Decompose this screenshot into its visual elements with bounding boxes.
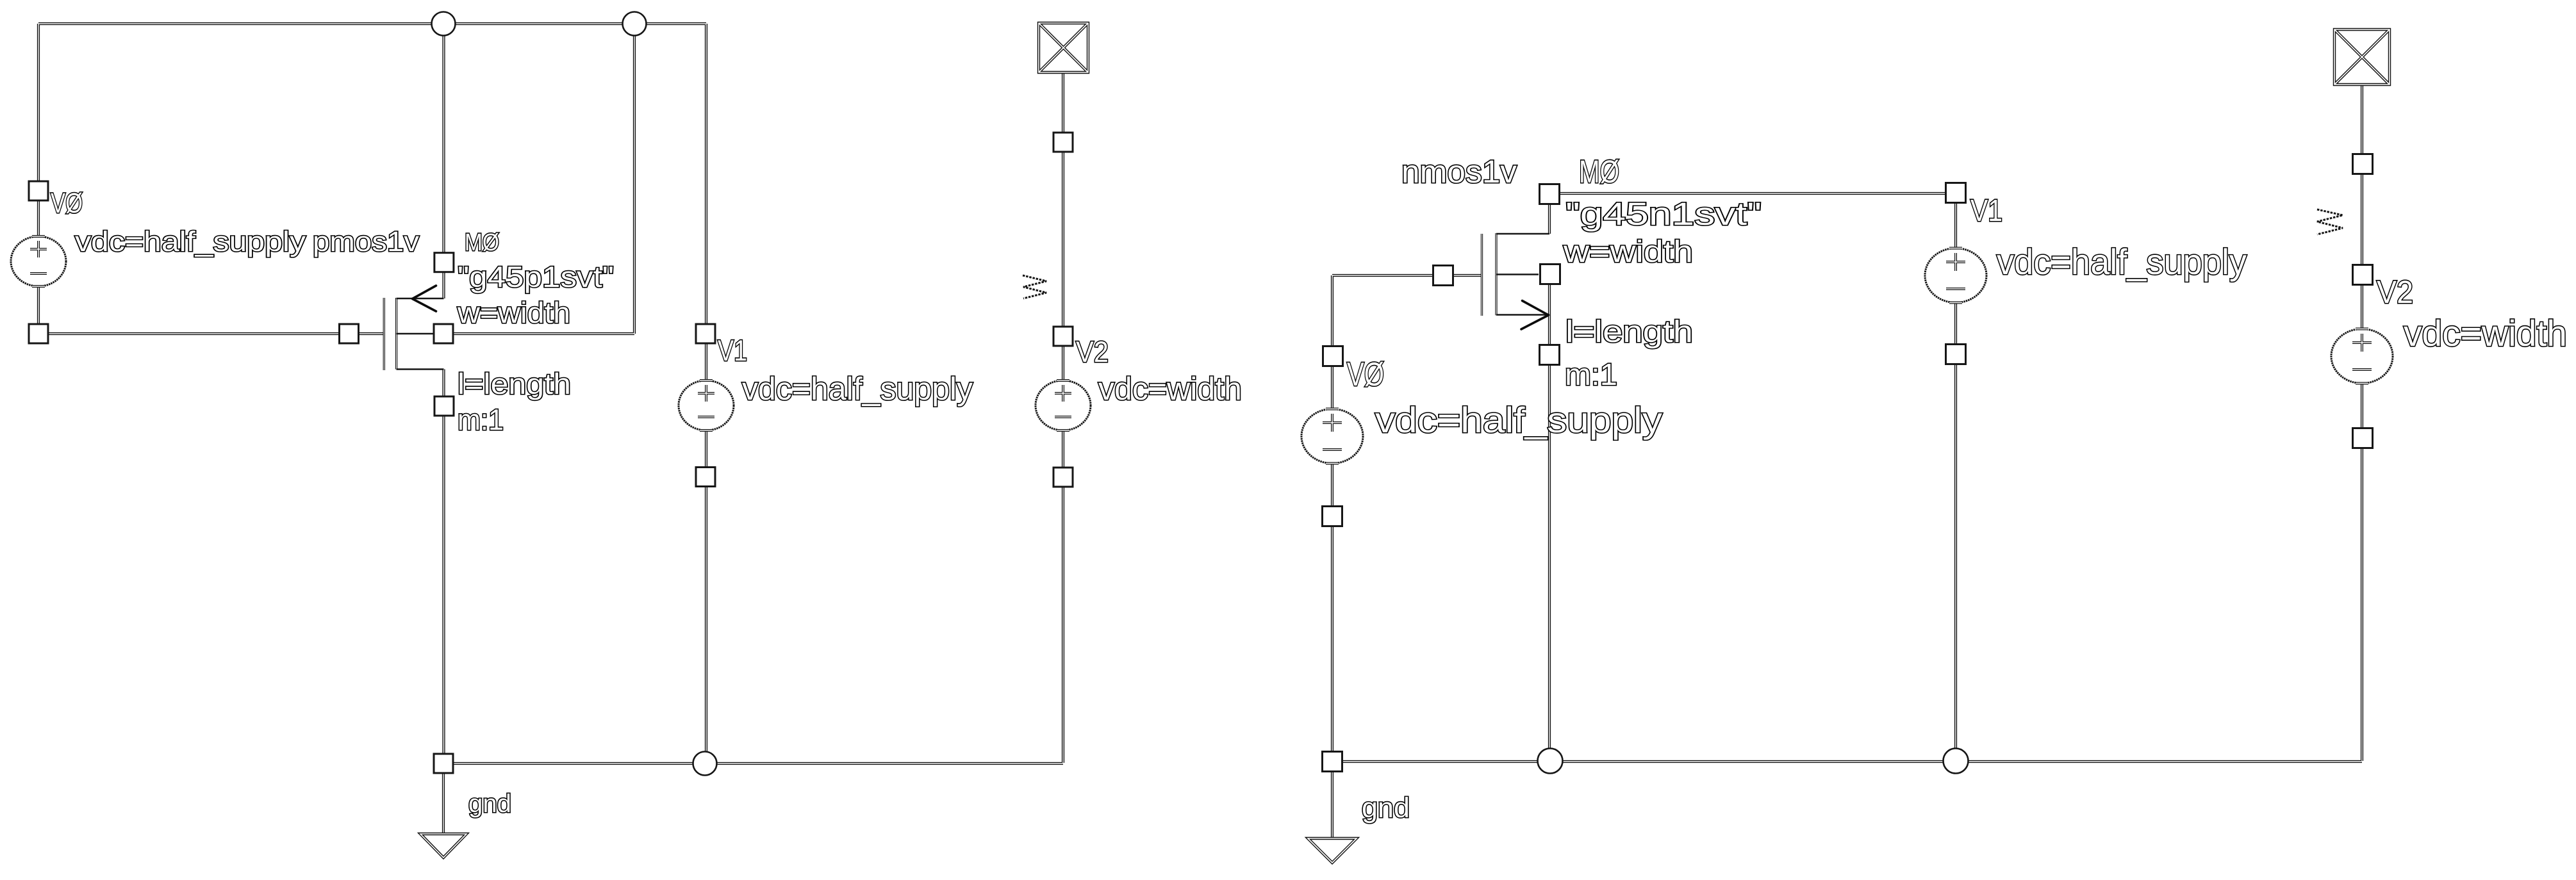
svg-text:m:1: m:1 [458, 403, 504, 436]
svg-text:V1: V1 [1970, 194, 2002, 228]
svg-text:V2: V2 [2377, 274, 2413, 310]
svg-text:gnd: gnd [1362, 792, 1410, 824]
svg-text:pmos1v: pmos1v [313, 226, 419, 257]
svg-text:m:1: m:1 [1565, 358, 1617, 392]
svg-text:w=width: w=width [457, 296, 570, 329]
svg-text:MØ: MØ [1579, 154, 1619, 190]
svg-text:V1: V1 [718, 334, 747, 367]
svg-text:w=width: w=width [1563, 235, 1693, 269]
svg-text:gnd: gnd [468, 790, 511, 818]
svg-text:VØ: VØ [1347, 356, 1384, 393]
svg-text:vdc=half_supply: vdc=half_supply [1997, 241, 2247, 282]
svg-text:nmos1v: nmos1v [1401, 154, 1517, 190]
svg-text:vdc=half_supply: vdc=half_supply [742, 371, 973, 407]
svg-text:vdc=width: vdc=width [1098, 371, 1242, 407]
svg-text:vdc=half_supply: vdc=half_supply [1375, 400, 1662, 440]
svg-text:"g45p1svt": "g45p1svt" [458, 260, 614, 293]
svg-text:l=length: l=length [1565, 315, 1693, 349]
svg-text:VØ: VØ [51, 188, 83, 219]
svg-text:l=length: l=length [458, 367, 571, 400]
svg-text:vdc=width: vdc=width [2404, 313, 2567, 354]
svg-text:MØ: MØ [465, 229, 499, 256]
svg-text:V2: V2 [1076, 335, 1109, 368]
svg-text:"g45n1svt": "g45n1svt" [1565, 196, 1762, 232]
svg-text:vdc=half_supply: vdc=half_supply [75, 226, 306, 257]
